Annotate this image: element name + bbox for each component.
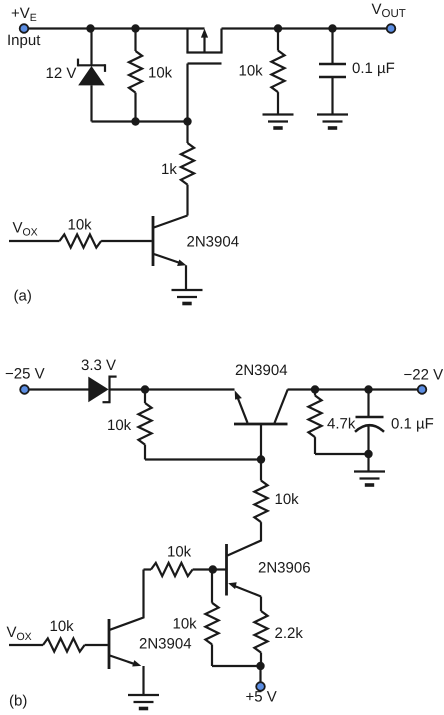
- svg-text:2N3906: 2N3906: [258, 560, 311, 577]
- transistor Q4 2N3906: [213, 544, 261, 611]
- svg-text:10k: 10k: [275, 491, 300, 508]
- svg-text:2N3904: 2N3904: [235, 362, 288, 379]
- terminal -25V: [20, 385, 29, 394]
- svg-text:−25 V: −25 V: [5, 366, 45, 383]
- svg-text:10k: 10k: [239, 63, 264, 80]
- wire bottom rail (a): [92, 120, 188, 122]
- svg-text:10k: 10k: [148, 65, 173, 82]
- node junction dots (b): [141, 385, 373, 670]
- svg-text:4.7k: 4.7k: [327, 416, 356, 433]
- resistor R4 10k (output load, circuit a): [271, 29, 284, 115]
- MOSFET Q1 pass transistor: [186, 29, 222, 122]
- ground (a, under C1): [317, 115, 348, 129]
- svg-text:+5 V: +5 V: [246, 689, 277, 706]
- terminal +VE input: [20, 24, 29, 33]
- svg-text:(a): (a): [14, 288, 32, 305]
- svg-text:−22 V: −22 V: [404, 367, 444, 384]
- wire top rail left segment: [28, 27, 205, 29]
- svg-text:10k: 10k: [50, 618, 75, 635]
- svg-text:Input: Input: [7, 32, 41, 49]
- resistor R1 10k (input divider, circuit a): [129, 29, 142, 122]
- resistor R2 1k: [181, 122, 194, 216]
- svg-text:3.3 V: 3.3 V: [81, 357, 116, 374]
- svg-text:(b): (b): [9, 693, 27, 710]
- resistor R6 4.7k: [308, 390, 321, 455]
- wire bottom to +5V node: [212, 666, 261, 682]
- ground (a, under Q2): [172, 290, 203, 304]
- ground (a, under R4): [263, 115, 294, 129]
- resistor R11 10k (Vox input, circuit b): [9, 638, 108, 651]
- svg-text:12 V: 12 V: [46, 65, 77, 82]
- svg-text:0.1 µF: 0.1 µF: [352, 60, 395, 77]
- wire R6 to C2 bottom: [315, 453, 369, 455]
- svg-text:2.2k: 2.2k: [275, 625, 304, 642]
- ground (b, under C2): [354, 472, 385, 486]
- resistor R8 2.2k: [254, 611, 267, 666]
- wire base node (b): [145, 458, 261, 460]
- terminal -22V: [418, 385, 427, 394]
- svg-text:10k: 10k: [68, 217, 93, 234]
- wire top rail right segment: [222, 27, 392, 29]
- transistor Q3 2N3904 (b, pass): [234, 390, 288, 460]
- resistor R9 10k (base pull, vertical): [205, 570, 218, 667]
- svg-text:2N3904: 2N3904: [139, 636, 192, 653]
- resistor R5 10k (base bias, circuit b): [138, 390, 151, 460]
- transistor Q2 2N3904 (a): [153, 216, 188, 290]
- svg-text:0.1 µF: 0.1 µF: [391, 416, 434, 433]
- resistor R10 10k (coupling, horizontal): [144, 563, 213, 576]
- terminal +5V: [256, 682, 265, 691]
- terminal VOUT: [387, 24, 396, 33]
- zener diode D2 3.3 V: [88, 376, 116, 404]
- svg-text:1k: 1k: [161, 161, 177, 178]
- wire top rail right (b): [288, 388, 419, 390]
- node junction dots (a): [86, 24, 336, 125]
- resistor R7 10k (collector feed to Q4): [228, 460, 268, 556]
- capacitor C2 0.1 uF (polarized): [355, 390, 384, 472]
- capacitor C1 0.1 uF: [319, 29, 346, 115]
- svg-text:10k: 10k: [107, 417, 132, 434]
- resistor R3 10k (Vox input, circuit a): [9, 234, 152, 247]
- svg-text:10k: 10k: [167, 544, 192, 561]
- wire -25V input: [29, 388, 89, 390]
- svg-text:10k: 10k: [173, 616, 198, 633]
- ground (b, under Q5): [128, 695, 159, 709]
- svg-text:2N3904: 2N3904: [187, 234, 240, 251]
- wire diode to Q3 emitter: [110, 388, 235, 390]
- transistor Q5 2N3904 (b, lower left): [109, 570, 144, 695]
- zener diode D1 12 V: [78, 29, 105, 122]
